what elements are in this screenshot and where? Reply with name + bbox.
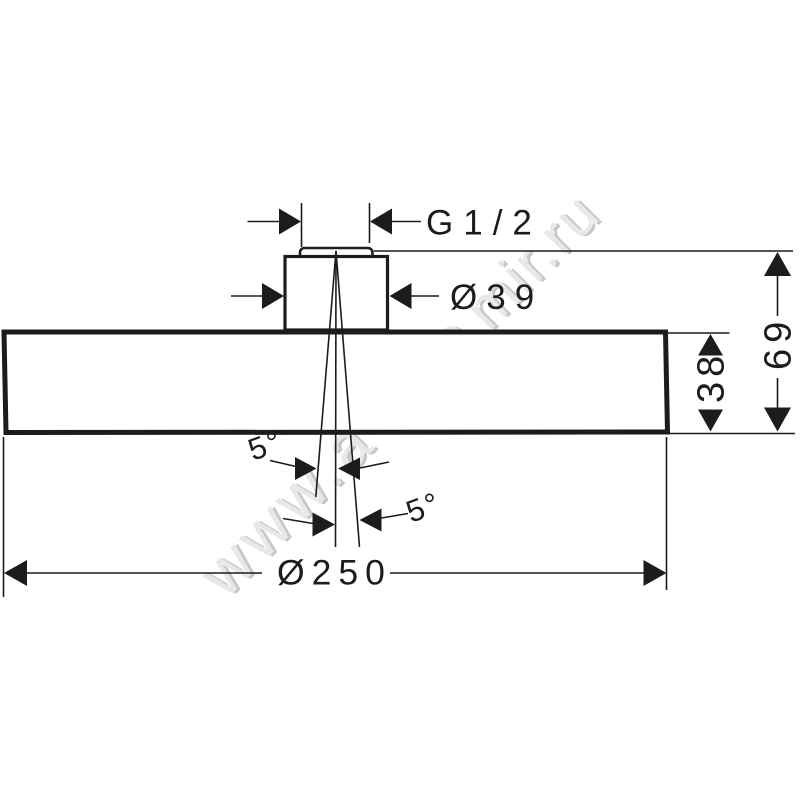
Ø250 right extension line (666, 437, 668, 590)
upper 5deg left-pointing arrow (338, 458, 360, 481)
upper 5deg right-pointing arrow (295, 457, 317, 480)
upper 5deg leader (270, 461, 296, 467)
svg-text:G1/2: G1/2 (426, 204, 542, 243)
left spray line 5deg (316, 251, 336, 497)
Ø250 line right segment (390, 572, 645, 574)
69 dimension bottom extension line (669, 433, 795, 435)
38 bottom arrow (698, 410, 723, 432)
svg-text:38: 38 (691, 351, 733, 403)
svg-text:Ø39: Ø39 (450, 278, 543, 317)
69 line lower segment (777, 378, 779, 409)
69 top arrow (764, 252, 791, 276)
Ø250 left arrow (4, 560, 27, 586)
upper 5deg right tail (360, 462, 389, 468)
38 dimension top extension line (668, 332, 730, 334)
lower 5deg left tail (283, 519, 313, 524)
G1/2 left arrow (279, 209, 301, 235)
svg-text:69: 69 (758, 316, 800, 370)
center spray line (335, 251, 338, 547)
G1/2 dimension extension line right (369, 203, 371, 243)
G1/2 right tail (392, 221, 421, 223)
lower 5deg left-pointing arrow (360, 509, 382, 532)
Ø39 right arrow (390, 283, 412, 309)
69 bottom arrow (764, 408, 791, 432)
G1/2 left tail (248, 221, 281, 223)
G1/2 right arrow (370, 209, 392, 235)
svg-text:5°: 5° (401, 485, 446, 530)
watermark www.aquamir.ru (182, 175, 617, 611)
connector cap (thread) (300, 248, 373, 260)
G1/2 dimension extension line left (301, 203, 303, 247)
Ø250 line left segment (26, 572, 262, 574)
lower 5deg leader (382, 514, 409, 519)
Ø39 left arrow (262, 283, 284, 309)
connector block (285, 257, 388, 331)
right spray line 5deg (336, 251, 360, 547)
69 line upper segment (777, 275, 779, 316)
Ø39 right tail (412, 295, 440, 297)
38 top arrow (698, 334, 723, 356)
Ø39 left tail (231, 295, 262, 297)
Ø250 right arrow (644, 560, 667, 586)
lower 5deg right-pointing arrow (313, 513, 336, 537)
shower head disc (4, 332, 668, 433)
69 dimension top extension line (374, 250, 793, 252)
svg-text:Ø250: Ø250 (277, 553, 392, 593)
Ø250 left extension line (3, 437, 5, 597)
